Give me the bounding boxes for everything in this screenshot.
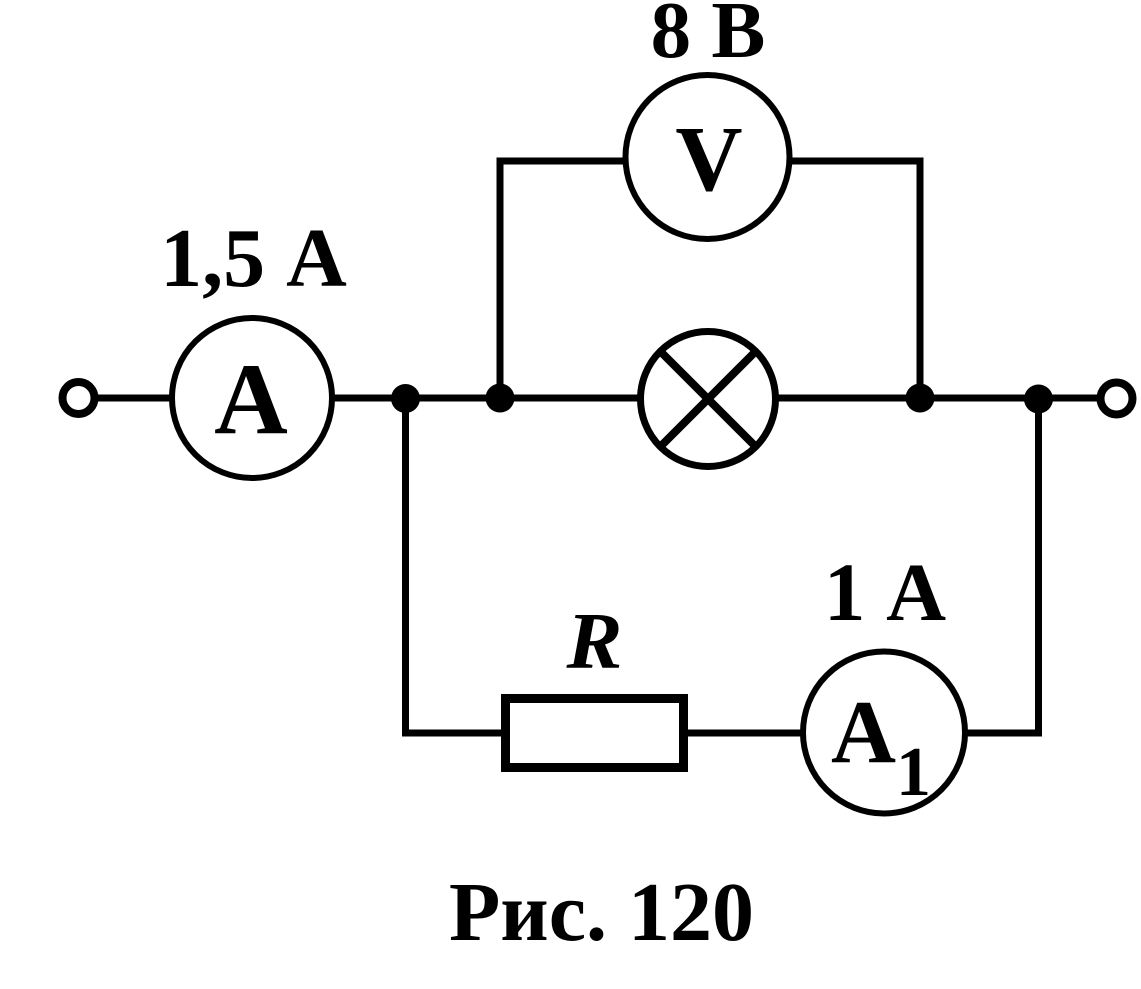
- wire ammeter A to lamp (main line): [333, 395, 641, 402]
- wire lamp to terminal T2: [775, 395, 1100, 402]
- wire ammeter A1 to right riser: [966, 730, 1042, 737]
- wire riser down from voltmeter branch: [917, 158, 924, 399]
- svg-text:1,5 А: 1,5 А: [160, 212, 347, 305]
- svg-text:1 А: 1 А: [824, 546, 946, 638]
- voltmeter V (circle): [626, 75, 790, 239]
- resistor R (rectangle): [506, 699, 684, 768]
- wire right riser down: [1035, 398, 1042, 737]
- svg-text:А: А: [214, 343, 288, 456]
- node junction dot 1: [391, 384, 420, 413]
- terminal T2 (right open circle): [1101, 383, 1133, 415]
- wire top left to voltmeter: [497, 158, 627, 165]
- node junction dot 4: [1024, 385, 1053, 414]
- wire riser up to voltmeter branch: [497, 158, 504, 399]
- ammeter A1 (circle): [803, 652, 965, 814]
- ammeter A (circle): [172, 318, 332, 478]
- node junction dot 3: [906, 384, 935, 413]
- svg-text:R: R: [565, 598, 622, 686]
- lamp X stroke 2: [660, 351, 755, 446]
- terminal T1 (left open circle): [63, 382, 95, 414]
- wire left riser down: [402, 398, 409, 737]
- svg-text:V: V: [675, 108, 742, 211]
- lamp EL (circle): [641, 332, 776, 467]
- svg-text:8 В: 8 В: [651, 0, 766, 75]
- wire voltmeter to right riser: [790, 158, 924, 165]
- wire bottom left to resistor: [402, 730, 506, 737]
- node junction dot 2: [486, 384, 515, 413]
- svg-text:Рис. 120: Рис. 120: [449, 866, 754, 959]
- wire T1 to ammeter A: [96, 395, 172, 402]
- wire resistor to ammeter A1: [686, 730, 804, 737]
- lamp X stroke 1: [660, 351, 755, 446]
